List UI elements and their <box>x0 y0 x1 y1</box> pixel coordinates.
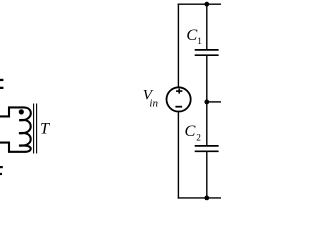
capacitor C1 <box>195 50 219 55</box>
transformer T secondary winding (coil, cut at left edge) <box>0 107 31 151</box>
wire: bottom horizontal rail <box>178 197 221 199</box>
voltage source Vin (circle) <box>167 87 191 111</box>
svg-text:1: 1 <box>197 37 202 47</box>
minus sign of source <box>175 106 182 108</box>
node: top junction dot <box>204 2 209 7</box>
plus sign of source <box>176 89 182 94</box>
node: bottom junction dot <box>204 196 209 201</box>
wire: top horizontal rail <box>178 3 221 5</box>
svg-text:C: C <box>185 121 197 140</box>
cut-off label fragment (left edge, top terminal) <box>0 79 3 89</box>
wire: source branch upper segment <box>177 4 179 88</box>
wire: source branch lower segment <box>177 112 179 199</box>
wire: capacitor branch top segment <box>206 4 208 50</box>
node: middle junction dot <box>204 100 209 105</box>
wire: capacitor branch middle segment <box>206 56 208 146</box>
wire: capacitor branch bottom segment <box>206 152 208 199</box>
cut-off label fragment (left edge, bottom terminal) <box>0 166 3 175</box>
svg-text:T: T <box>40 119 51 138</box>
svg-text:in: in <box>149 98 158 110</box>
wire: middle output stub to right edge <box>207 101 221 103</box>
transformer core (two vertical lines) <box>33 104 35 154</box>
capacitor C2 <box>195 146 219 151</box>
svg-text:2: 2 <box>196 134 201 144</box>
polarity dot of winding <box>19 109 24 114</box>
